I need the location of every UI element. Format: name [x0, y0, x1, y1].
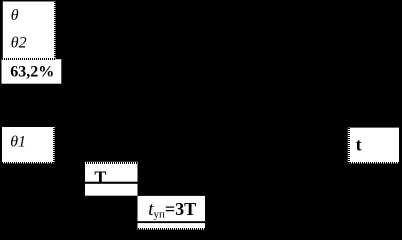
dotted top border of box D [85, 162, 137, 164]
dotted right border of box A [54, 2, 56, 58]
dotted border between box A and box B [2, 58, 56, 60]
svg-text:θ: θ [11, 7, 19, 24]
label box F (t) [348, 128, 399, 164]
svg-text:t: t [356, 135, 362, 155]
label box B (63,2%) [2, 59, 62, 83]
svg-text:θ2: θ2 [11, 35, 27, 52]
line segment across box E [138, 221, 206, 223]
dotted bottom border of box E [138, 228, 205, 230]
dotted bottom border of box C [2, 162, 55, 164]
label box A (theta / theta2) [3, 2, 56, 60]
dotted bottom border of box F [348, 162, 399, 164]
dotted left border of box F [348, 128, 350, 163]
svg-text:T: T [94, 168, 106, 188]
label box D (T) [85, 162, 138, 196]
svg-text:θ1: θ1 [10, 134, 26, 151]
label box E (tup=3T) [138, 196, 206, 230]
label box C (theta1) [2, 127, 55, 163]
dotted right border of box C [53, 127, 55, 163]
svg-text:63,2%: 63,2% [10, 63, 54, 80]
axis line segment across box D [85, 182, 138, 184]
